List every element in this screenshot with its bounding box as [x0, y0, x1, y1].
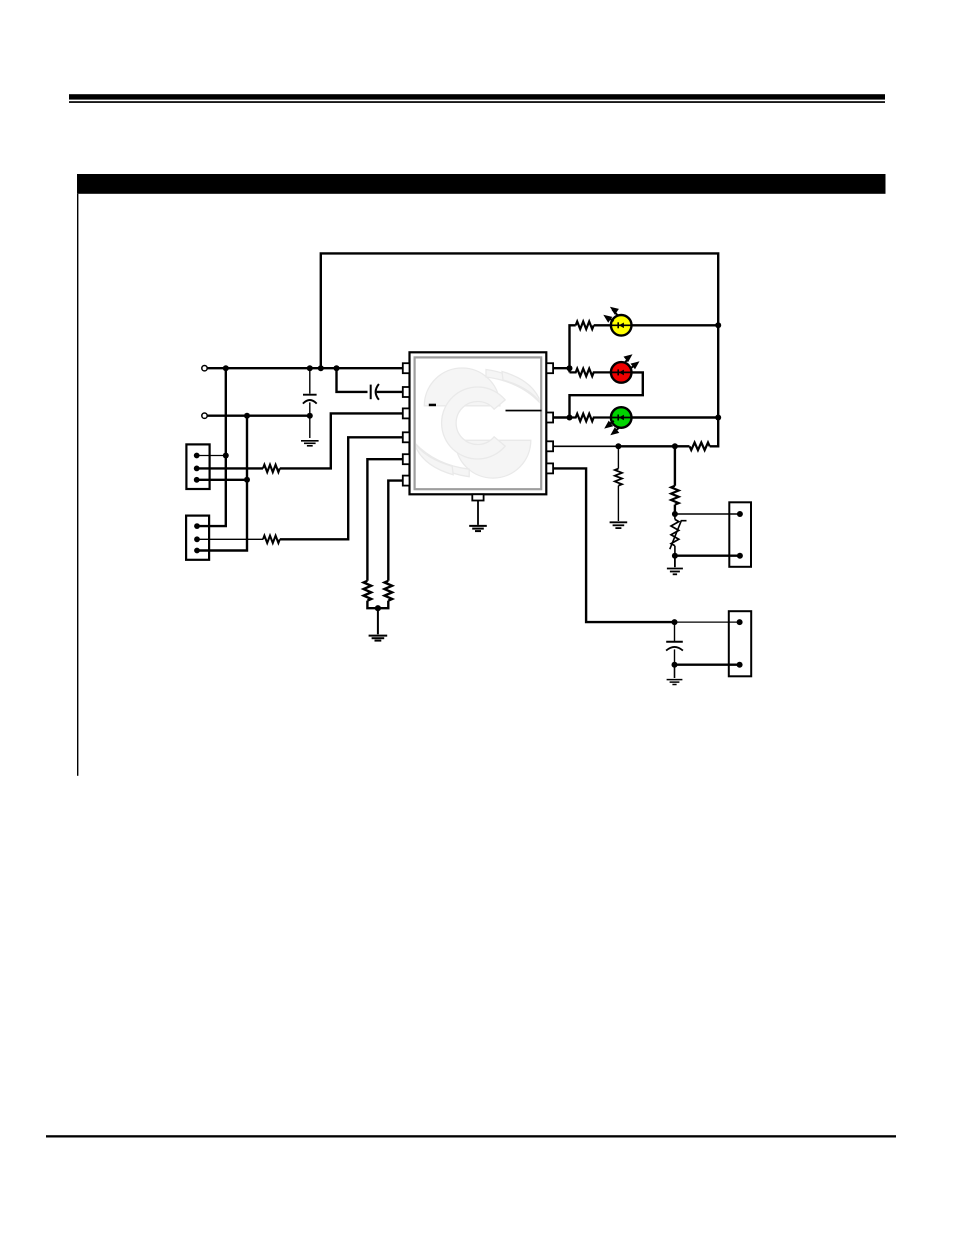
wire R2 to J2 pin B [197, 538, 263, 540]
resistor R4 [385, 581, 393, 601]
wire TP2 rail down to J2 pin C [197, 416, 247, 551]
node P (trimmer top) [672, 511, 678, 517]
node I (R3 R4 junction) [375, 605, 381, 611]
ground GND5 [667, 569, 683, 575]
resistor R10 [671, 486, 679, 505]
ground GND6 [667, 680, 683, 685]
node K (yellow row / rail) [715, 322, 721, 328]
wire R5 to LED D1 [594, 324, 611, 326]
node C (top rail tap) [318, 365, 324, 371]
node E (J1 pin A junction) [223, 453, 229, 459]
wire node S to J4 pin 2 [675, 664, 740, 666]
wire R9 to ground [617, 486, 619, 521]
wire IC pin 6 down to R4 [388, 481, 403, 581]
wire IC pin 11 to node N [553, 445, 618, 447]
wire C2 to IC pin 2 [377, 391, 403, 393]
wire J1 pin C to TP2 rail [197, 479, 247, 481]
node N (R10 tap) [672, 443, 678, 449]
IC U1 internal dash mark [429, 404, 436, 407]
connector J3 [729, 502, 751, 567]
connector J2 [186, 516, 209, 560]
wire R10 to node P [674, 505, 676, 514]
IC U1 pin 1 (left) [403, 363, 410, 373]
wire node O down to R9 [617, 446, 619, 468]
capacitor C2 [371, 384, 379, 400]
wire D2 cathode loop to green node [570, 372, 643, 417]
wire left rail down to J2 pin A [197, 368, 226, 526]
wire node N down to R10 [674, 446, 676, 486]
wire right rail down to R8 [710, 325, 719, 446]
terminal TP1 [202, 366, 207, 371]
resistor R1 [263, 465, 280, 472]
wire D1 to right rail [631, 324, 718, 326]
wire R1 to J1 pin B [197, 467, 263, 469]
LED D1 (yellow) [603, 307, 631, 336]
wire C3 to node S [674, 649, 676, 664]
ground GND4 [610, 522, 628, 528]
LED D2 (red) [611, 354, 640, 382]
node G (C1 bottom junction) [307, 413, 313, 419]
IC U1 pin 6 (left) [403, 476, 410, 486]
wire node D to C2 [337, 368, 368, 392]
wire TP1 to IC pin 1 [207, 367, 403, 369]
page furniture (not circuit) [69, 94, 885, 99]
capacitor C1 [303, 395, 317, 404]
IC U1 pin 10 (right) [546, 463, 553, 473]
node Q (trimmer bottom) [672, 553, 678, 559]
resistor R9 [615, 469, 622, 486]
wire D3 to right rail [631, 416, 718, 418]
wire node S to ground [674, 665, 676, 678]
node J (pin 13 junction) [567, 365, 573, 371]
wire node I to ground [377, 608, 379, 634]
node D (C2 tap) [334, 365, 340, 371]
wire C1 lower lead to ground [309, 402, 311, 438]
resistor R5 (yellow LED) [576, 322, 594, 330]
wire IC pin 3 to R1 [280, 413, 403, 468]
IC U1 pin 2 (left) [403, 387, 410, 397]
wire node R down to C3 [674, 622, 676, 641]
wire yellow LED branch riser [570, 325, 576, 372]
connector J1 [186, 444, 209, 489]
resistor R2 [263, 536, 280, 543]
node R (C3 top) [672, 619, 678, 625]
wire IC pin 13 to LED branch [553, 367, 569, 369]
IC U1 pin 3 (left) [403, 408, 410, 418]
wire V+ top rail [321, 253, 718, 368]
resistor R6 (red LED) [570, 369, 612, 377]
wire node P to J3 pin 1 [675, 513, 740, 515]
IC U1 internal line mark [506, 410, 542, 412]
node M (green row / rail) [715, 415, 721, 421]
IC U1 pin 12 (right) [546, 413, 553, 423]
wire C1 upper lead [309, 368, 311, 394]
ground GND2 [369, 636, 388, 641]
wire node Q to ground [674, 556, 676, 568]
node L (green row junction) [567, 415, 573, 421]
IC U1 pin 13 (right) [546, 363, 553, 373]
IC U1 pin 11 (right) [546, 441, 553, 451]
wire IC GND pin to ground [477, 500, 479, 525]
capacitor C3 [666, 642, 683, 651]
ground GND3 [469, 526, 487, 531]
connector J4 [729, 611, 751, 676]
wire TP2 to node B2 [207, 415, 310, 417]
wire R8 to node N [675, 445, 690, 447]
ground GND1 [301, 441, 319, 446]
wire R4 to ground node [378, 601, 388, 609]
wire R3 to ground node [367, 601, 378, 609]
IC U1 GND pin (bottom) [472, 494, 483, 500]
resistor R8 [690, 443, 710, 451]
wire IC pin 12 to green node [553, 416, 569, 418]
node H (J1 pin C junction) [244, 477, 250, 483]
resistor R3 [364, 581, 372, 601]
resistor R7 (green LED) [570, 414, 612, 422]
wire IC pin 5 down to R3 [367, 459, 402, 581]
IC U1 pin 5 (left) [403, 454, 410, 464]
node O (R9 tap) [615, 443, 621, 449]
terminal TP2 [202, 413, 207, 418]
wire J1 pin A to left rail [197, 455, 226, 457]
node B (C1 tap) [307, 365, 313, 371]
node F (TP2 rail tap) [244, 413, 250, 419]
LED D3 (green) [604, 407, 631, 435]
IC U1 body [410, 352, 547, 494]
wire IC pin 10 to node R [553, 468, 674, 622]
wire node O to node N [618, 445, 675, 447]
node S (C3 bottom) [672, 662, 678, 668]
trimmer RV1 [670, 514, 687, 556]
node A (left rail tap) [223, 365, 229, 371]
wire node Q to J3 pin 2 [675, 555, 740, 557]
wire node R to J4 pin 1 [675, 621, 740, 623]
IC U1 pin 4 (left) [403, 432, 410, 442]
wire IC pin 4 to R2 [280, 437, 403, 539]
